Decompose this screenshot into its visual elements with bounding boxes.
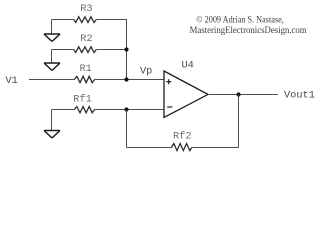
wire R3 right lead — [96, 19, 127, 21]
resistor R2 — [74, 47, 97, 53]
svg-text:R1: R1 — [80, 63, 92, 75]
ground (R2) — [44, 63, 60, 71]
wire R2 right lead — [96, 49, 127, 51]
svg-text:U4: U4 — [182, 59, 194, 71]
ground (R3) — [44, 34, 60, 42]
wire Rf1 left lead — [52, 109, 75, 111]
op-amp minus pin mark — [167, 106, 172, 108]
svg-text:R2: R2 — [80, 33, 92, 45]
junction R2 bus — [124, 47, 128, 51]
svg-text:Rf1: Rf1 — [73, 93, 92, 105]
wire R3 left lead — [52, 19, 74, 21]
wire feedback right vertical — [238, 95, 240, 148]
wire Rf1 ground drop — [51, 110, 53, 131]
svg-text:Vout1: Vout1 — [284, 89, 315, 101]
wire feedback bottom left — [127, 147, 172, 149]
wire Rf1 to op-amp minus input — [95, 109, 164, 111]
resistor R1 — [74, 76, 94, 82]
wire feedback bottom right — [192, 147, 239, 149]
ground (Rf1) — [44, 131, 60, 139]
resistor Rf1 — [74, 107, 94, 113]
junction output feedback — [236, 92, 240, 96]
resistor R3 — [74, 17, 97, 23]
svg-text:R3: R3 — [80, 3, 92, 15]
svg-text:MasteringElectronicsDesign.com: MasteringElectronicsDesign.com — [190, 25, 307, 35]
wire R1 to op-amp plus input — [95, 79, 164, 81]
svg-text:Rf2: Rf2 — [173, 131, 192, 143]
svg-text:Vp: Vp — [140, 66, 152, 78]
resistor Rf2 — [171, 144, 191, 151]
wire V1 to R1 — [29, 79, 74, 81]
svg-text:© 2009 Adrian S. Nastase,: © 2009 Adrian S. Nastase, — [196, 15, 283, 25]
junction Rf1 feedback — [124, 107, 128, 111]
wire vertical bus R3-R2-R1 — [126, 20, 128, 80]
op-amp plus pin mark — [166, 79, 171, 84]
wire R2 ground drop — [51, 50, 53, 64]
junction R1 bus / node Vp — [124, 77, 128, 81]
wire R2 left lead — [52, 49, 74, 51]
wire R3 ground drop — [51, 20, 53, 35]
wire op-amp output — [208, 94, 278, 96]
wire feedback left vertical — [126, 110, 128, 148]
op-amp U4 — [164, 71, 208, 117]
svg-text:V1: V1 — [6, 75, 18, 87]
